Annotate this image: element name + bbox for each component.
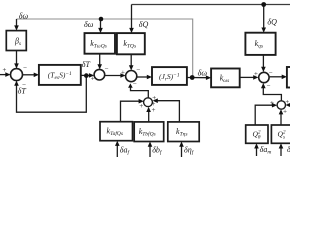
- svg-text:+: +: [90, 74, 95, 82]
- svg-text:+: +: [270, 99, 275, 107]
- svg-text:δω: δω: [198, 68, 208, 77]
- svg-text:+: +: [139, 102, 144, 110]
- svg-text:−: −: [104, 64, 109, 72]
- svg-text:δ: δ: [287, 145, 290, 154]
- svg-text:+: +: [151, 106, 156, 114]
- svg-text:+: +: [285, 98, 290, 106]
- svg-text:−: −: [266, 82, 271, 90]
- svg-text:δQ: δQ: [267, 18, 277, 27]
- svg-text:δω: δω: [84, 20, 94, 29]
- svg-text:−: −: [132, 80, 137, 88]
- svg-text:+: +: [283, 108, 288, 116]
- svg-text:−: −: [268, 69, 273, 77]
- svg-text:δQ: δQ: [139, 20, 149, 29]
- svg-text:δω: δω: [19, 12, 29, 21]
- svg-text:δT: δT: [18, 86, 27, 95]
- svg-text:+: +: [254, 70, 259, 78]
- svg-text:δT: δT: [82, 60, 91, 69]
- svg-text:+: +: [2, 66, 7, 74]
- svg-text:+: +: [121, 68, 126, 76]
- svg-text:−: −: [136, 66, 141, 74]
- svg-text:−: −: [23, 63, 28, 71]
